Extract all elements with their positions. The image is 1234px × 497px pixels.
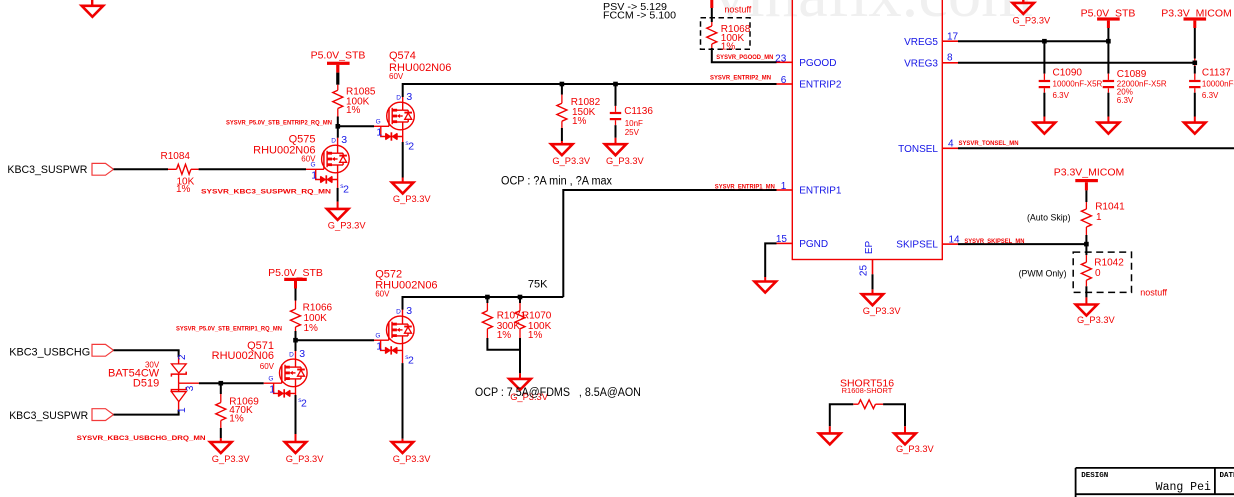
svg-text:OCP : 7.5A@FDMS , 8.5A@AON: OCP : 7.5A@FDMS , 8.5A@AON: [475, 387, 641, 399]
svg-text:vinafix.com: vinafix.com: [713, 0, 1033, 31]
svg-text:G_P3.3V: G_P3.3V: [1077, 315, 1116, 325]
svg-text:14: 14: [949, 234, 961, 245]
svg-text:2: 2: [343, 184, 349, 196]
svg-text:R1608-SHORT: R1608-SHORT: [842, 386, 893, 395]
svg-text:FCCM -> 5.100: FCCM -> 5.100: [603, 9, 676, 21]
svg-text:D: D: [396, 95, 401, 102]
svg-text:VREG3: VREG3: [904, 59, 938, 70]
svg-text:nostuff: nostuff: [724, 5, 751, 15]
svg-text:1: 1: [311, 170, 317, 182]
svg-text:P5.0V_STB: P5.0V_STB: [311, 50, 366, 62]
svg-text:ENTRIP2: ENTRIP2: [799, 80, 842, 91]
svg-text:P3.3V_MICOM: P3.3V_MICOM: [1054, 167, 1125, 179]
svg-text:6.3V: 6.3V: [1117, 96, 1134, 105]
svg-text:1: 1: [781, 181, 787, 192]
svg-text:3: 3: [299, 348, 305, 360]
svg-text:2: 2: [408, 141, 414, 153]
svg-text:G_P3.3V: G_P3.3V: [393, 194, 432, 204]
svg-text:G_P3.3V: G_P3.3V: [286, 454, 325, 464]
svg-text:3: 3: [341, 134, 347, 146]
svg-text:25: 25: [858, 265, 869, 277]
svg-text:DATE: DATE: [1220, 472, 1234, 480]
svg-text:RHU002N06: RHU002N06: [212, 350, 274, 362]
svg-text:6.3V: 6.3V: [1053, 91, 1070, 100]
svg-text:SYSVR_ENTRIP2_MN: SYSVR_ENTRIP2_MN: [710, 74, 771, 81]
svg-text:OCP : ?A min , ?A max: OCP : ?A min , ?A max: [501, 175, 612, 187]
svg-text:SYSVR_KBC3_USBCHG_DRQ_MN: SYSVR_KBC3_USBCHG_DRQ_MN: [77, 435, 206, 442]
svg-text:25V: 25V: [625, 128, 640, 137]
svg-text:8: 8: [947, 53, 953, 64]
svg-text:G_P3.3V: G_P3.3V: [328, 220, 367, 230]
svg-text:KBC3_SUSPWR: KBC3_SUSPWR: [9, 410, 88, 422]
svg-text:G_P3.3V: G_P3.3V: [863, 306, 902, 316]
svg-text:SYSVR_P5.0V_STB_ENTRIP2_RQ_MN: SYSVR_P5.0V_STB_ENTRIP2_RQ_MN: [226, 119, 332, 126]
svg-text:(Auto Skip): (Auto Skip): [1027, 213, 1071, 223]
svg-text:G_P3.3V: G_P3.3V: [606, 156, 645, 166]
svg-text:KBC3_SUSPWR: KBC3_SUSPWR: [7, 164, 87, 176]
svg-text:R1041: R1041: [1095, 202, 1125, 213]
svg-text:1: 1: [177, 407, 188, 413]
svg-text:1%: 1%: [176, 184, 191, 195]
svg-text:1%: 1%: [721, 42, 736, 53]
svg-text:3: 3: [406, 305, 412, 317]
svg-text:TONSEL: TONSEL: [898, 144, 938, 155]
svg-text:D: D: [289, 352, 294, 359]
svg-text:1: 1: [269, 384, 275, 396]
svg-text:G_P3.3V: G_P3.3V: [1013, 16, 1052, 26]
svg-text:R1084: R1084: [161, 151, 191, 162]
svg-text:SYSVR_P5.0V_STB_ENTRIP1_RQ_MN: SYSVR_P5.0V_STB_ENTRIP1_RQ_MN: [176, 325, 282, 332]
svg-text:4: 4: [948, 139, 954, 150]
svg-text:PGND: PGND: [799, 239, 828, 250]
svg-text:G: G: [376, 119, 381, 126]
svg-text:(PWM Only): (PWM Only): [1019, 268, 1067, 278]
svg-text:G_P3.3V: G_P3.3V: [393, 454, 432, 464]
svg-text:2: 2: [408, 355, 414, 367]
svg-text:23: 23: [775, 53, 787, 64]
svg-text:2: 2: [177, 354, 188, 360]
svg-text:SYSVR_ENTRIP1_MN: SYSVR_ENTRIP1_MN: [715, 183, 775, 190]
svg-text:75K: 75K: [528, 278, 548, 290]
svg-text:10nF: 10nF: [625, 119, 643, 128]
svg-text:G: G: [268, 375, 273, 382]
svg-text:P5.0V_STB: P5.0V_STB: [268, 267, 323, 279]
svg-text:KBC3_USBCHG: KBC3_USBCHG: [9, 346, 90, 358]
svg-text:1%: 1%: [229, 413, 244, 424]
svg-text:1: 1: [376, 127, 382, 139]
svg-text:2: 2: [301, 398, 307, 410]
svg-text:60V: 60V: [260, 362, 275, 371]
svg-text:1%: 1%: [346, 105, 361, 116]
svg-text:SYSVR_SKIPSEL_MN: SYSVR_SKIPSEL_MN: [964, 238, 1024, 245]
svg-text:G_P3.3V: G_P3.3V: [212, 454, 251, 464]
svg-text:R1042: R1042: [1094, 257, 1124, 268]
svg-text:6.3V: 6.3V: [1202, 91, 1219, 100]
svg-text:ENTRIP1: ENTRIP1: [799, 186, 842, 197]
svg-text:1%: 1%: [304, 323, 319, 334]
svg-text:6: 6: [781, 75, 787, 86]
svg-text:0: 0: [1095, 268, 1101, 279]
svg-text:SKIPSEL: SKIPSEL: [896, 240, 938, 251]
svg-text:1: 1: [1096, 212, 1102, 223]
svg-text:60V: 60V: [389, 72, 404, 81]
svg-text:C1136: C1136: [624, 106, 653, 117]
svg-text:SYSVR_KBC3_SUSPWR_RQ_MN: SYSVR_KBC3_SUSPWR_RQ_MN: [201, 189, 331, 196]
svg-text:D519: D519: [133, 378, 159, 390]
svg-text:DESIGN: DESIGN: [1081, 472, 1108, 480]
svg-text:G_P3.3V: G_P3.3V: [896, 444, 935, 454]
svg-text:Q574: Q574: [389, 50, 416, 62]
svg-text:C1137: C1137: [1202, 68, 1231, 79]
svg-text:PGOOD: PGOOD: [799, 58, 836, 69]
svg-text:SYSVR_PGOOD_MN: SYSVR_PGOOD_MN: [716, 54, 773, 61]
svg-text:R1066: R1066: [303, 303, 333, 314]
svg-text:1%: 1%: [572, 116, 587, 127]
svg-text:15: 15: [776, 234, 788, 245]
svg-text:1%: 1%: [497, 330, 512, 341]
svg-text:D: D: [396, 309, 401, 316]
svg-text:10000nF-X5R: 10000nF-X5R: [1053, 79, 1103, 88]
svg-text:17: 17: [947, 31, 959, 42]
svg-text:3: 3: [406, 91, 412, 103]
svg-text:nostuff: nostuff: [1140, 287, 1167, 297]
svg-text:VREG5: VREG5: [904, 37, 938, 48]
svg-text:3: 3: [185, 385, 196, 391]
svg-text:1%: 1%: [528, 330, 543, 341]
svg-text:SYSVR_TONSEL_MN: SYSVR_TONSEL_MN: [959, 140, 1019, 147]
svg-text:Wang Pei: Wang Pei: [1156, 481, 1211, 494]
svg-text:R1070: R1070: [522, 311, 552, 322]
svg-text:G_P3.3V: G_P3.3V: [552, 156, 591, 166]
svg-text:10000nF-X5R: 10000nF-X5R: [1202, 79, 1234, 88]
svg-text:1: 1: [376, 341, 382, 353]
svg-text:D: D: [331, 138, 336, 145]
svg-text:60V: 60V: [375, 290, 390, 299]
svg-text:EP: EP: [864, 241, 875, 255]
svg-text:C1090: C1090: [1053, 68, 1083, 79]
svg-text:G: G: [375, 332, 380, 339]
svg-text:60V: 60V: [301, 155, 316, 164]
